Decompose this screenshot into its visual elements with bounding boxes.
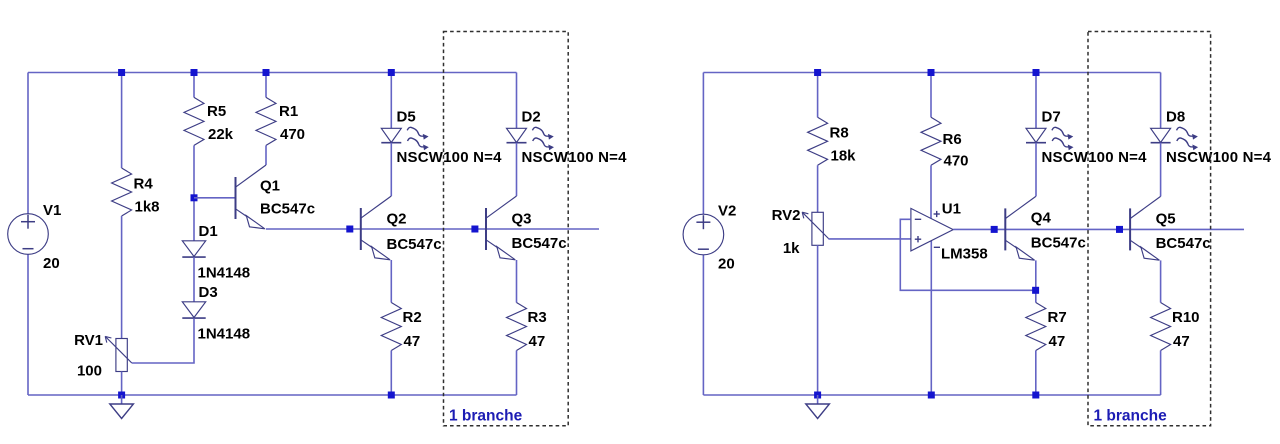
wire R1 to Q1 collector: [265, 145, 267, 165]
wire base bus left: [266, 228, 599, 230]
svg-text:U1: U1: [942, 201, 961, 218]
wire V1 top lead: [27, 73, 29, 214]
transistor Q1 BC547c: [236, 165, 316, 229]
wire Q2 emitter to R2: [390, 260, 392, 303]
svg-text:20: 20: [718, 256, 735, 273]
resistor R8 18k: [808, 117, 857, 165]
svg-text:NSCW100 N=4: NSCW100 N=4: [1166, 149, 1272, 166]
wire D1 to D3: [193, 257, 195, 302]
wire D2 top lead: [516, 73, 518, 129]
LED D7 NSCW100: [1026, 109, 1147, 167]
wire R5 to D1 through node: [193, 145, 195, 240]
svg-text:D3: D3: [199, 284, 218, 301]
svg-text:LM358: LM358: [941, 246, 988, 263]
transistor Q2 BC547c: [361, 196, 442, 260]
LED D5 NSCW100: [381, 109, 502, 167]
svg-text:RV2: RV2: [772, 207, 801, 224]
resistor R10 47: [1151, 303, 1200, 351]
wire D8 to Q5 collector: [1160, 143, 1162, 197]
wire R8 top lead: [817, 73, 819, 118]
junction V- bottom: [928, 392, 935, 399]
wire R4 top lead: [121, 73, 123, 169]
svg-text:47: 47: [1173, 333, 1190, 350]
svg-text:22k: 22k: [208, 126, 234, 143]
junction Q2 base: [346, 226, 353, 233]
ground left: [110, 395, 134, 419]
wire feedback loop: [900, 219, 1035, 290]
svg-text:D8: D8: [1166, 109, 1185, 126]
wire D7 top lead: [1035, 73, 1037, 129]
wire V2 bottom lead: [702, 255, 704, 395]
junction R6 top: [928, 69, 935, 76]
LED D8 NSCW100: [1151, 109, 1272, 167]
svg-text:BC547c: BC547c: [387, 236, 442, 253]
dashed box 1 branche left: [444, 32, 569, 426]
wire R4 to RV1: [121, 216, 123, 339]
svg-text:R7: R7: [1048, 309, 1067, 326]
wire opamp output bus: [953, 228, 1244, 230]
svg-text:R2: R2: [403, 309, 422, 326]
wire R7 bottom lead: [1035, 351, 1037, 396]
svg-text:R10: R10: [1172, 309, 1200, 326]
resistor R4 1k8: [112, 168, 160, 216]
svg-text:47: 47: [1049, 333, 1066, 350]
wire top rail right: [703, 72, 1160, 74]
svg-text:D1: D1: [199, 223, 218, 240]
svg-text:D7: D7: [1042, 109, 1061, 126]
svg-text:NSCW100 N=4: NSCW100 N=4: [1042, 149, 1148, 166]
wire R8 to RV2: [817, 165, 819, 212]
resistor R1 470: [256, 97, 305, 145]
wire opamp V- to ground rail: [930, 241, 932, 395]
wire R2 bottom lead: [390, 351, 392, 396]
svg-text:1N4148: 1N4148: [198, 265, 251, 282]
svg-text:BC547c: BC547c: [1031, 235, 1086, 252]
junction D7 top: [1033, 69, 1040, 76]
voltage source V2: [683, 203, 736, 273]
junction Q4 base: [991, 226, 998, 233]
wire bottom rail left: [28, 394, 517, 396]
svg-text:1k: 1k: [783, 240, 800, 257]
wire D2 to Q3 collector: [516, 143, 518, 196]
resistor R5 22k: [184, 97, 234, 145]
svg-text:R6: R6: [943, 131, 962, 148]
junction R1 top: [263, 69, 270, 76]
junction feedback node: [1032, 287, 1039, 294]
resistor R7 47: [1026, 303, 1067, 351]
wire R6 to opamp V+: [930, 165, 932, 218]
svg-text:D5: D5: [397, 109, 416, 126]
wire D7 to Q4 collector: [1035, 143, 1037, 197]
svg-text:NSCW100 N=4: NSCW100 N=4: [522, 149, 628, 166]
wire RV1 bottom lead: [121, 372, 123, 396]
svg-text:R5: R5: [207, 103, 226, 120]
svg-text:47: 47: [404, 333, 421, 350]
wire Q3 emitter to R3: [516, 260, 518, 303]
junction R7 bottom: [1032, 392, 1039, 399]
svg-text:1k8: 1k8: [135, 199, 160, 216]
wire R1 top lead: [265, 73, 267, 98]
diode D3 1N4148: [182, 302, 205, 318]
transistor Q4 BC547c: [1005, 196, 1086, 260]
svg-text:470: 470: [280, 126, 305, 143]
wire D5 top lead: [390, 73, 392, 129]
wire D5 to Q2 collector: [390, 143, 392, 196]
svg-text:R3: R3: [528, 309, 547, 326]
svg-text:BC547c: BC547c: [512, 235, 567, 252]
svg-text:R8: R8: [830, 125, 849, 142]
wire bottom rail right: [703, 394, 1160, 396]
resistor R3 47: [507, 303, 547, 351]
svg-text:BC547c: BC547c: [1156, 235, 1211, 252]
wire D3 to wiper: [132, 318, 194, 363]
junction base node: [191, 194, 198, 201]
svg-text:D2: D2: [522, 109, 541, 126]
svg-text:470: 470: [944, 153, 969, 170]
voltage source V1: [8, 202, 62, 272]
svg-text:20: 20: [43, 255, 60, 272]
junction Q3 base: [471, 226, 478, 233]
svg-text:18k: 18k: [831, 148, 857, 165]
svg-text:Q2: Q2: [387, 211, 407, 228]
LED D2 NSCW100: [507, 109, 628, 167]
junction R8 top: [814, 69, 821, 76]
label D3: [198, 284, 251, 343]
svg-text:Q4: Q4: [1031, 210, 1052, 227]
junction R2 bottom: [388, 392, 395, 399]
junction RV1 ground: [118, 392, 125, 399]
junction R5 top: [191, 69, 198, 76]
svg-text:NSCW100 N=4: NSCW100 N=4: [397, 149, 503, 166]
svg-text:1 branche: 1 branche: [1094, 408, 1168, 425]
diode D1 1N4148: [182, 241, 205, 257]
op-amp U1 LM358: [911, 201, 988, 263]
label D1: [198, 223, 251, 282]
svg-text:V2: V2: [718, 203, 736, 220]
svg-text:Q5: Q5: [1156, 211, 1176, 228]
transistor Q5 BC547c: [1130, 196, 1211, 260]
potentiometer RV1 100: [74, 332, 132, 380]
svg-text:Q1: Q1: [260, 178, 280, 195]
ground right: [806, 395, 830, 419]
svg-text:BC547c: BC547c: [260, 201, 315, 218]
svg-text:RV1: RV1: [74, 332, 103, 349]
junction ground right: [814, 392, 821, 399]
svg-text:1N4148: 1N4148: [198, 326, 251, 343]
wire Q4 emitter to R7: [1035, 260, 1037, 302]
wire RV2 wiper to opamp +: [828, 238, 911, 240]
svg-text:1 branche: 1 branche: [449, 408, 523, 425]
transistor Q3 BC547c: [486, 196, 567, 260]
resistor R6 470: [921, 117, 969, 169]
wire Q5 emitter to R10: [1160, 260, 1162, 302]
junction D5 top: [388, 69, 395, 76]
resistor R2 47: [381, 303, 421, 351]
wire RV2 bottom lead: [817, 245, 819, 395]
dashed box 1 branche right: [1088, 32, 1211, 426]
svg-text:R4: R4: [134, 176, 154, 193]
svg-text:R1: R1: [279, 103, 298, 120]
junction Q5 base: [1116, 226, 1123, 233]
svg-text:47: 47: [529, 333, 546, 350]
potentiometer RV2 1k: [772, 207, 829, 257]
wire R5 top lead: [193, 73, 195, 98]
wire R6 top lead: [930, 73, 932, 118]
junction R4 top: [118, 69, 125, 76]
wire base node to Q1: [194, 197, 236, 199]
svg-text:100: 100: [77, 363, 102, 380]
wire D8 top lead: [1160, 73, 1162, 129]
wire V2 top lead: [702, 73, 704, 215]
wire top rail left: [28, 72, 517, 74]
wire V1 bottom lead: [27, 254, 29, 395]
svg-text:Q3: Q3: [512, 211, 532, 228]
wire R3 bottom lead: [516, 351, 518, 396]
wire R10 bottom lead: [1160, 351, 1162, 396]
svg-text:V1: V1: [43, 202, 61, 219]
